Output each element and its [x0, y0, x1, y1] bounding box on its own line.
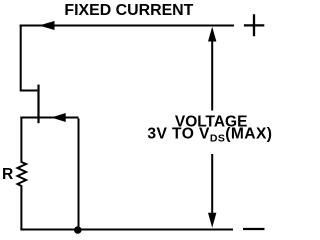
plus terminal — [244, 14, 264, 36]
svg-text:FIXED CURRENT: FIXED CURRENT — [64, 2, 193, 19]
transistor Q1 gate arrowhead (points left toward channel) — [51, 113, 65, 122]
wire bottom rail — [20, 229, 233, 231]
svg-text:R: R — [2, 166, 13, 183]
voltage arrowhead down — [208, 213, 216, 228]
wire right drop from gate to bottom rail — [78, 119, 80, 231]
junction dot — [74, 226, 82, 234]
minus terminal — [243, 228, 265, 230]
transistor Q1 channel bar — [37, 85, 39, 124]
wire left drop and drain lead of Q1 — [21, 25, 38, 91]
transistor Q1 source/gate horizontal line — [20, 117, 78, 119]
voltage arrow upper segment (arrowhead up) — [211, 40, 213, 111]
svg-text:3V TO VDS(MAX): 3V TO VDS(MAX) — [147, 125, 272, 144]
resistor R with leads — [18, 117, 27, 231]
wire top rail — [20, 25, 234, 27]
voltage arrowhead up — [208, 27, 216, 42]
voltage arrow lower segment (arrowhead down) — [211, 154, 213, 214]
arrowhead fixed current (points left) — [39, 21, 55, 30]
